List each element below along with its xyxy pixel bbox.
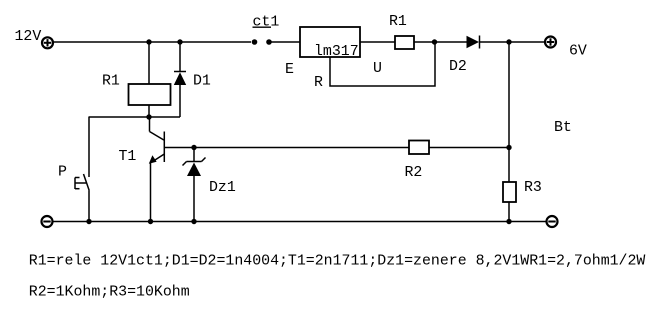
svg-text:Bt: Bt <box>554 120 572 136</box>
contact ct1 <box>252 39 272 45</box>
junction collector node <box>146 114 151 119</box>
transistor T1 <box>149 117 165 164</box>
wire bottom rail <box>53 221 546 223</box>
wire D2 to output terminal <box>480 41 545 43</box>
regulator U1 lm317 <box>300 27 360 60</box>
svg-text:R: R <box>314 75 323 91</box>
wire base to R2 <box>164 147 409 149</box>
wire R3 to bottom rail <box>508 202 510 222</box>
svg-text:P: P <box>58 165 67 181</box>
svg-text:12V: 12V <box>15 29 42 45</box>
wire emitter to bottom rail <box>150 162 152 222</box>
svg-text:R3: R3 <box>524 180 542 196</box>
svg-text:R2=1Kohm;R3=10Kohm: R2=1Kohm;R3=10Kohm <box>29 284 190 300</box>
wire R2 to output node <box>429 147 509 149</box>
label ct1 <box>253 15 280 31</box>
junction feedback node <box>432 39 437 44</box>
junction D1 top <box>177 39 182 44</box>
junction output node <box>506 39 511 44</box>
svg-text:E: E <box>285 62 294 78</box>
zener Dz1 <box>183 148 206 222</box>
junction zener bottom <box>191 219 196 224</box>
junction relay top <box>146 39 151 44</box>
junction P bottom <box>86 219 91 224</box>
svg-text:Dz1: Dz1 <box>209 180 236 196</box>
wire ADJ feedback <box>330 42 435 86</box>
svg-text:U: U <box>373 61 382 77</box>
svg-text:lm317: lm317 <box>314 44 359 60</box>
junction zener node <box>191 145 196 150</box>
wire regulator output <box>360 41 395 43</box>
svg-text:R1=rele 12V1ct1;D1=D2=1n4004;T: R1=rele 12V1ct1;D1=D2=1n4004;T1=2n1711;D… <box>29 254 646 270</box>
resistor R2 <box>409 141 429 155</box>
terminal negative right <box>547 216 558 227</box>
svg-text:T1: T1 <box>119 149 137 165</box>
wire R1 to D2 <box>414 41 467 43</box>
svg-text:D2: D2 <box>449 59 467 75</box>
terminal negative left <box>42 216 53 227</box>
resistor R1 <box>395 36 414 49</box>
junction emitter bottom <box>148 219 153 224</box>
wire ct1 to regulator <box>272 41 301 43</box>
relay coil R1 <box>129 42 171 117</box>
terminal +6V <box>545 37 556 48</box>
svg-text:D1: D1 <box>193 74 211 90</box>
wire collector node <box>89 116 181 118</box>
diode D1 <box>174 42 186 117</box>
terminal +12V <box>42 37 53 48</box>
junction R2 node <box>506 145 511 150</box>
svg-text:R2: R2 <box>405 165 423 181</box>
resistor R3 <box>503 182 516 202</box>
svg-text:ct1: ct1 <box>253 15 280 31</box>
diode D2 <box>467 36 480 49</box>
svg-text:6V: 6V <box>569 44 587 60</box>
svg-text:R1: R1 <box>389 14 407 30</box>
junction R3 bottom <box>506 219 511 224</box>
svg-text:R1: R1 <box>102 74 120 90</box>
pushbutton P <box>75 117 89 222</box>
wire top rail <box>53 41 251 43</box>
wire output vertical upper <box>508 42 510 182</box>
